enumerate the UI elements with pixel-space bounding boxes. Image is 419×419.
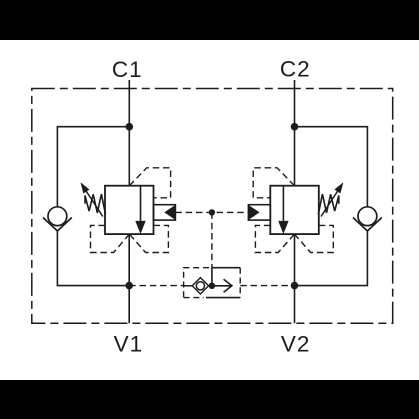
top letterbox bar [0,0,419,40]
CB2 internal flow arrow [282,186,284,222]
wire: CV2 outlet to V2 rail [295,231,368,286]
CB2 pilot piston triangle [248,205,259,220]
node: V1 junction dot [125,282,133,290]
CB2 pilot piston box [248,205,270,220]
wire: shuttle to V2 rail (dashed) [240,285,294,287]
CB1 pilot passage (dashed loop) [129,168,170,198]
check valve CV1 (left) ball [48,207,67,226]
node: V2 junction dot [291,282,299,290]
wire: cross pilot line (dashed) [175,211,248,213]
node: C1 junction dot [126,123,134,131]
check valve CV1 seat [43,218,72,232]
CB2 pilot passage (dashed loop) [253,168,294,198]
wire: left valve outlet down to V1 port [128,234,130,323]
check valve CV2 (right) ball [358,207,377,226]
svg-text:V2: V2 [281,332,311,357]
wire: pilot drop to shuttle (dashed) [211,212,213,267]
wire: C2 supply line [294,80,296,186]
wire: V1 rail to shuttle (dashed) [129,285,183,287]
CB1 internal flow arrow [140,186,142,222]
bottom letterbox bar [0,380,419,419]
CB1 drain bracket right (dashed) [129,225,168,252]
wire: right valve outlet down to V2 port [294,234,296,323]
svg-text:V1: V1 [114,332,144,357]
CB1 pilot piston triangle [164,205,175,220]
CB1 adjustment arrow [85,189,103,217]
node: pilot junction dot [209,209,215,215]
shuttle check enclosure (dashed part) [184,268,209,298]
svg-text:C1: C1 [112,57,143,82]
CB2 adjustable spring [318,194,339,215]
wire: C1 branch to left check valve [57,127,129,207]
CB2 drain bracket left (dashed) [255,225,294,252]
svg-text:C2: C2 [280,57,311,82]
CB1 adjustable spring [85,194,106,215]
shuttle check channel (solid part) [206,268,240,298]
node: C2 junction dot [291,123,299,131]
wire: C2 branch to right check valve [295,127,368,207]
manifold enclosure (chain-dashed frame) [32,89,393,324]
wire: CV1 outlet to V1 rail [57,231,129,286]
CB1 drain bracket left (dashed) [91,225,130,252]
CB2 drain bracket right (dashed) [294,225,333,252]
wire: free flow line with arrow [209,285,232,287]
node: shuttle junction dot [209,283,215,289]
counterbalance valve CB2 (right) body [270,186,319,234]
CB1 pilot piston box [154,205,176,220]
counterbalance valve CB1 (left) body [105,186,154,234]
shuttle ball [196,282,204,290]
CB2 adjustment arrow [321,189,339,217]
wire: C1 supply line [128,80,130,186]
check valve CV2 seat [353,218,382,232]
wire: ball seat inlet stub [184,285,193,287]
shuttle ball seat (diamond) [192,278,208,294]
